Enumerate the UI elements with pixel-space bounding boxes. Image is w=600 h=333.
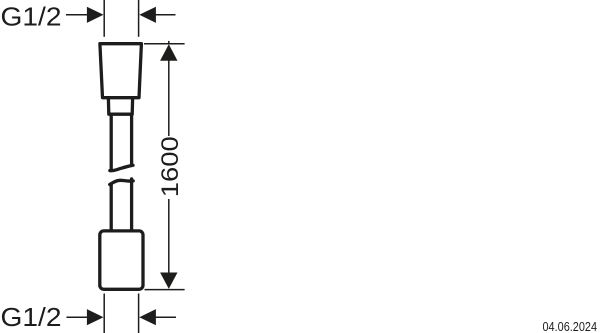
svg-text:04.06.2024: 04.06.2024: [543, 320, 598, 333]
svg-text:G1/2: G1/2: [1, 302, 62, 332]
svg-text:1600: 1600: [157, 136, 184, 197]
svg-text:G1/2: G1/2: [1, 2, 62, 32]
